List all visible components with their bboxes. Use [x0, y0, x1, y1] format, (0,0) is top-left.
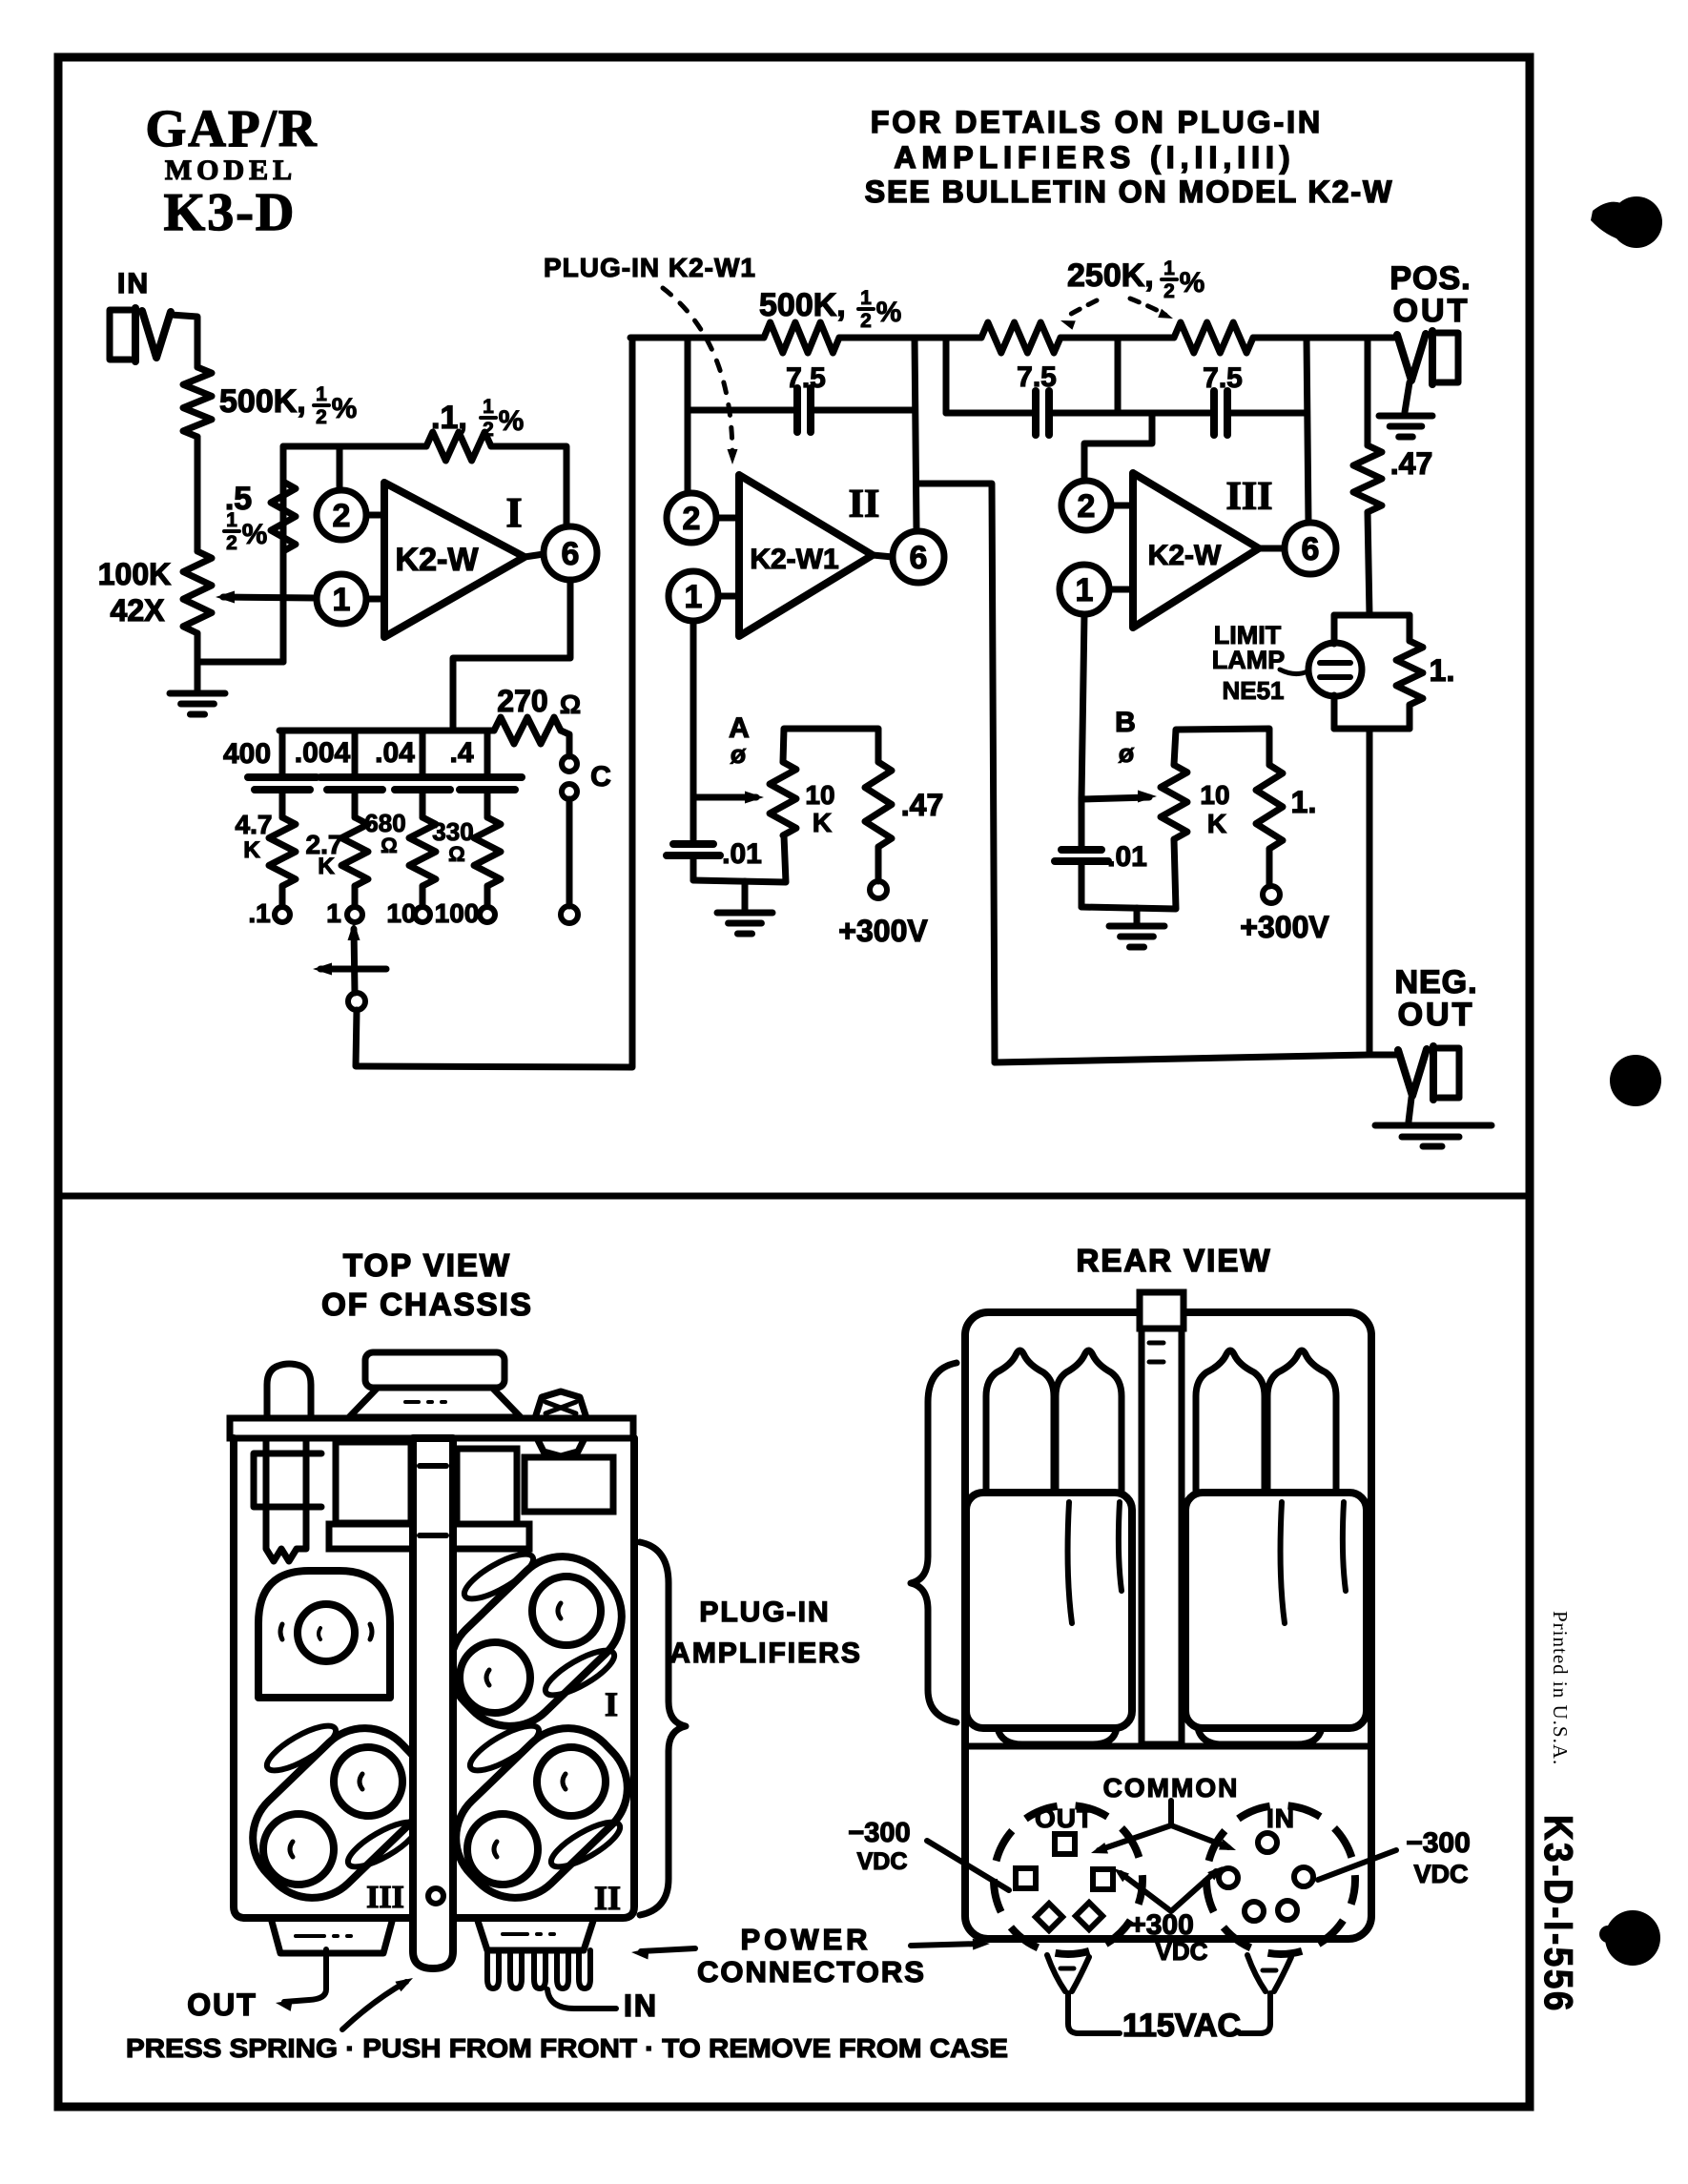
svg-text:MODEL: MODEL: [165, 155, 297, 186]
svg-text:VDC: VDC: [1156, 1937, 1208, 1966]
binder ink blob bottom: [1605, 1910, 1660, 1966]
svg-text:1.: 1.: [1291, 785, 1317, 819]
wire 270 to switch: [561, 731, 569, 756]
wire jack to ground pos: [1405, 382, 1410, 412]
wire pin2 to triangle: [366, 512, 384, 519]
svg-text:1: 1: [860, 287, 872, 309]
chassis pilot lamp: [267, 1364, 311, 1418]
wire apex to pin6 III: [1259, 546, 1285, 552]
resistor R10 500K feedback II: [764, 322, 839, 353]
svg-text:Printed in U.S.A.: Printed in U.S.A.: [1549, 1611, 1572, 1765]
svg-text:.1: .1: [248, 898, 270, 928]
svg-text:K3-D: K3-D: [164, 183, 297, 242]
pin round right: [1294, 1867, 1313, 1886]
svg-text:100K: 100K: [98, 557, 172, 591]
section divider line: [58, 1193, 1530, 1200]
svg-text:K2-W: K2-W: [396, 542, 480, 578]
wire R1 to pot: [195, 437, 201, 551]
terminal +300V B: [1263, 886, 1280, 903]
resistor R17 0.47 output: [1353, 445, 1382, 512]
svg-text:6: 6: [910, 540, 928, 576]
wire apex to pin 6: [525, 554, 544, 557]
switch S1 contact lower: [562, 784, 577, 799]
chassis connector block: [477, 1918, 594, 1950]
svg-text:K2-W: K2-W: [1148, 540, 1222, 571]
svg-text:AMPLIFIERS: AMPLIFIERS: [669, 1638, 862, 1669]
svg-text:500K,: 500K,: [759, 287, 846, 323]
resistor R5 270 ohm: [494, 717, 561, 744]
svg-text:TOP VIEW: TOP VIEW: [343, 1247, 511, 1283]
chassis screw hex: [535, 1391, 587, 1418]
wire C1 to R6: [279, 790, 286, 817]
socket cluster I: [429, 1535, 643, 1747]
svg-text:1: 1: [1076, 572, 1094, 608]
chassis knob: [365, 1352, 504, 1388]
svg-text:K: K: [1207, 809, 1226, 838]
svg-text:.01: .01: [1107, 841, 1147, 873]
resistor R13 250K first: [981, 322, 1060, 353]
resistor R7 2.7K: [341, 817, 368, 886]
svg-text:.4: .4: [449, 737, 473, 769]
wire amp II tee to neg bus: [918, 484, 995, 1062]
rear can left foot: [998, 1728, 1117, 1744]
wire pot bottom: [195, 633, 201, 662]
arrow power to rear connectors: [911, 1944, 980, 1946]
wire bottom junction: [197, 659, 283, 666]
binder ink blob top: [1611, 196, 1662, 248]
plus300 fork: [1121, 1871, 1216, 1911]
wire R17 to lamp box: [1368, 512, 1369, 615]
svg-text:PLUG-IN: PLUG-IN: [699, 1597, 830, 1628]
brace left of rear view: [911, 1363, 957, 1722]
svg-text:42X: 42X: [111, 593, 166, 628]
capacitor C6 7.5 parallel R13: [1032, 391, 1040, 435]
svg-text:1: 1: [483, 396, 494, 418]
switch S1 contact upper: [562, 756, 577, 772]
svg-text:K: K: [813, 808, 832, 837]
svg-text:Ω: Ω: [448, 842, 465, 866]
svg-text:ø: ø: [731, 740, 747, 769]
svg-text:2: 2: [683, 501, 701, 537]
svg-text:1: 1: [333, 582, 351, 618]
rear tubes: [986, 1350, 1054, 1495]
leader LAMP to lamp: [1280, 670, 1307, 674]
lamp box bottom: [1334, 726, 1410, 732]
wire junction drop 250K pair: [1115, 338, 1122, 413]
svg-text:2: 2: [226, 532, 237, 554]
wiper wire R2 to pin 1: [223, 597, 317, 598]
pin 1 of amp I: [317, 574, 366, 624]
selector wiper arrow up: [354, 929, 355, 993]
svg-text:K: K: [243, 837, 260, 863]
op-amp U3 K2-W: [1133, 473, 1259, 628]
svg-text:C: C: [590, 761, 611, 793]
wire pin2 to triangle III: [1111, 503, 1133, 509]
svg-text:.47: .47: [1390, 446, 1432, 481]
svg-text:6: 6: [562, 536, 580, 572]
wire J1 to R1: [171, 315, 197, 367]
svg-text:AMPLIFIERS (I,II,III): AMPLIFIERS (I,II,III): [894, 140, 1295, 175]
wire node to pin 2: [337, 446, 343, 490]
svg-text:POS.: POS.: [1390, 260, 1471, 297]
svg-text:.01: .01: [722, 838, 762, 870]
svg-text:OUT: OUT: [1398, 997, 1475, 1033]
svg-text:100: 100: [435, 898, 480, 928]
svg-text:6: 6: [1302, 531, 1320, 567]
resistor R16 1. B: [1256, 765, 1283, 849]
svg-text:1: 1: [685, 579, 703, 615]
svg-text:OUT: OUT: [1035, 1803, 1094, 1833]
bar pivot hole: [428, 1888, 443, 1904]
jack J3 NEG OUT: [1438, 1048, 1459, 1098]
wire summing rail amp I: [283, 443, 426, 450]
svg-text:NEG.: NEG.: [1394, 964, 1477, 1000]
chassis mech rect mid: [457, 1449, 517, 1524]
svg-text:OF CHASSIS: OF CHASSIS: [321, 1287, 533, 1322]
lamp box top: [1334, 612, 1410, 619]
wire cap C5 line right: [811, 407, 915, 414]
chassis body: [234, 1438, 634, 1918]
wire pot A top rail: [783, 729, 878, 762]
svg-text:Ω: Ω: [381, 834, 398, 857]
svg-text:.47: .47: [901, 788, 943, 822]
svg-text:.04: .04: [375, 737, 415, 769]
leader IN: [547, 1989, 616, 2009]
svg-text:10: 10: [805, 780, 834, 810]
connector IN dashed circle: [1206, 1805, 1355, 1954]
wire cap C7 line: [1118, 410, 1214, 417]
rear case: [965, 1312, 1371, 1939]
ground GND3: [1134, 908, 1141, 923]
svg-text:K2-W1: K2-W1: [750, 544, 838, 575]
capacitor C7 7.5 parallel R14: [1210, 391, 1218, 435]
wire C3 to R8: [420, 790, 426, 817]
wire pin1 III down: [1081, 614, 1084, 799]
svg-text:SEE BULLETIN ON MODEL K2-W: SEE BULLETIN ON MODEL K2-W: [865, 175, 1394, 209]
svg-text:10: 10: [386, 898, 416, 928]
chassis foot out: [271, 1918, 393, 1953]
svg-text:−300: −300: [1406, 1827, 1471, 1859]
chassis knob neck: [349, 1388, 521, 1417]
wire R4 to output node: [491, 446, 566, 525]
pin 2 of amp II: [667, 493, 716, 543]
svg-text:NE51: NE51: [1222, 676, 1284, 705]
chassis mech bar: [329, 1524, 529, 1549]
svg-text:270: 270: [497, 684, 547, 718]
wire pin1 to triangle: [366, 596, 384, 603]
svg-text:K: K: [318, 854, 335, 879]
rear can left: [966, 1493, 1132, 1728]
svg-text:7.5: 7.5: [1017, 361, 1057, 393]
wire C2 to R7: [352, 790, 359, 817]
chassis bracket: [254, 1453, 321, 1507]
svg-text:FOR DETAILS ON PLUG-IN: FOR DETAILS ON PLUG-IN: [871, 105, 1323, 139]
wire bank column 4 stem: [484, 731, 491, 777]
wire amp III output drop: [1307, 338, 1308, 523]
wire R3 bottom: [280, 551, 287, 662]
svg-text:IN: IN: [1266, 1803, 1295, 1833]
svg-text:IN: IN: [117, 268, 150, 299]
capacitor C9 .01 B: [1079, 799, 1085, 850]
svg-text:CONNECTORS: CONNECTORS: [697, 1955, 926, 1988]
contact C bottom: [561, 906, 578, 923]
leader dashed to R13: [1066, 300, 1097, 317]
wire pot B top rail: [1174, 729, 1269, 765]
contact 10: [415, 907, 430, 922]
wire lamp box to neg bus: [1367, 729, 1373, 1053]
socket cluster III: [232, 1707, 445, 1919]
svg-text:+300V: +300V: [1240, 910, 1329, 944]
wire bank column 2 stem: [352, 731, 359, 777]
wire amp III input jog: [1084, 413, 1152, 481]
svg-text:OUT: OUT: [1393, 293, 1471, 329]
resistor R3 0.5: [271, 482, 296, 551]
svg-text:%: %: [1180, 267, 1205, 299]
svg-text:250K,: 250K,: [1067, 258, 1154, 294]
wire bank top rail: [279, 728, 494, 734]
wire bank column 1 stem: [279, 731, 286, 777]
svg-text:VDC: VDC: [1413, 1860, 1468, 1888]
terminal +300V A: [870, 881, 887, 898]
115 bracket left: [1047, 1955, 1089, 1991]
pin 6 of amp III: [1285, 523, 1336, 574]
lamp box left upper: [1331, 615, 1338, 644]
capacitor C1 400: [248, 773, 317, 781]
wire R7 to contact: [352, 886, 359, 906]
capacitor C2 .004: [320, 773, 389, 781]
svg-text:REAR VIEW: REAR VIEW: [1076, 1243, 1271, 1278]
potentiometer R15 10K B: [1161, 765, 1187, 839]
wire selector to amp II input: [356, 338, 632, 1067]
wire pin1 to triangle III: [1109, 587, 1133, 593]
pin square top: [1055, 1834, 1075, 1854]
svg-text:PLUG-IN K2-W1: PLUG-IN K2-W1: [544, 253, 756, 282]
svg-text:%: %: [332, 393, 358, 424]
pin 2 of amp I: [317, 490, 366, 540]
svg-text:B: B: [1115, 707, 1136, 738]
wire cap C5 line left: [688, 407, 797, 414]
pin 6 of amp II: [893, 531, 944, 583]
wire R12 to supply: [875, 847, 882, 881]
wire cap C6 right: [1049, 410, 1118, 417]
chassis spring tube: [266, 1438, 306, 1561]
wire switch to contact row: [566, 799, 573, 906]
capacitor C8 .01 A: [690, 797, 697, 844]
contact 1: [347, 907, 362, 922]
wire C8 bottom to pot A: [693, 835, 786, 882]
wire rail between 250K: [1060, 335, 1174, 341]
selector hub contact: [348, 993, 365, 1010]
svg-text:115VAC: 115VAC: [1122, 2008, 1241, 2044]
ground GND5: [1375, 1123, 1492, 1129]
pin round left: [1219, 1868, 1238, 1887]
svg-text:4.7: 4.7: [236, 810, 273, 839]
svg-text:2: 2: [316, 406, 327, 428]
svg-text:2: 2: [1078, 488, 1096, 525]
wire jack to ground neg: [1409, 1098, 1411, 1122]
svg-text:OUT: OUT: [187, 1988, 257, 2022]
resistor R12 0.47: [865, 762, 892, 847]
wire amp II output drop: [915, 338, 916, 530]
contact 100: [480, 907, 495, 922]
svg-text:ø: ø: [1119, 739, 1135, 768]
chassis top plate: [230, 1418, 633, 1438]
svg-text:.1,: .1,: [431, 400, 467, 436]
svg-text:1: 1: [316, 383, 327, 405]
resistor R4 0.1 feedback: [426, 432, 491, 461]
lamp box left lower: [1331, 695, 1338, 729]
svg-text:I: I: [505, 489, 522, 536]
binder ink blob middle: [1610, 1055, 1661, 1106]
svg-text:%: %: [499, 405, 525, 437]
svg-text:2: 2: [860, 310, 872, 332]
pin 1 of amp II: [669, 571, 718, 621]
svg-text:I: I: [605, 1685, 618, 1723]
ground GND2: [742, 881, 749, 910]
arrow power to chassis pins: [641, 1948, 695, 1951]
pin 2 of amp III: [1061, 481, 1111, 530]
brace right of top view: [640, 1542, 686, 1915]
socket D left: [258, 1571, 390, 1698]
capacitor C4 .4: [453, 773, 522, 781]
wire amp I output down: [453, 580, 570, 728]
wire pin1 II down: [690, 621, 697, 797]
resistor R9 330&#937;: [474, 817, 501, 886]
chassis center bar: [413, 1438, 453, 1968]
svg-text:GAP/R: GAP/R: [145, 99, 318, 157]
svg-text:500K,: 500K,: [219, 383, 306, 420]
wire C9 bottom to pot B: [1081, 839, 1176, 909]
svg-text:PRESS SPRING · PUSH FROM FRONT: PRESS SPRING · PUSH FROM FRONT · TO REMO…: [126, 2033, 1008, 2063]
svg-text:POWER: POWER: [740, 1923, 871, 1956]
svg-text:2: 2: [333, 498, 351, 534]
svg-text:III: III: [1225, 475, 1272, 519]
rear can right foot: [1198, 1728, 1322, 1744]
rear center bar: [1140, 1292, 1184, 1329]
leader dashed to R14: [1130, 299, 1165, 315]
svg-text:2: 2: [1163, 280, 1175, 302]
wire C4 to R9: [484, 790, 491, 817]
svg-text:−300: −300: [848, 1818, 910, 1848]
svg-text:%: %: [242, 519, 268, 550]
svg-text:VDC: VDC: [857, 1848, 908, 1875]
wire rail to POS OUT: [1253, 335, 1398, 341]
svg-text:+300V: +300V: [838, 914, 928, 948]
svg-text:400: 400: [223, 738, 271, 770]
wiper wire pot B: [1081, 797, 1149, 799]
capacitor C5 7.5 amp II: [793, 388, 801, 432]
svg-text:2: 2: [483, 419, 494, 441]
pin round bottom right: [1278, 1901, 1297, 1920]
resistor R18 1. lamp parallel: [1396, 641, 1423, 705]
wire R9 to contact: [484, 886, 491, 906]
wire pin1 to triangle II: [718, 593, 739, 600]
pin 1 of amp III: [1060, 565, 1109, 614]
limit lamp DS1 NE51: [1308, 643, 1362, 696]
leader OUT: [284, 1949, 326, 2002]
pin round top: [1258, 1833, 1277, 1852]
jack J1 IN: [110, 310, 131, 360]
pin square left: [1016, 1868, 1036, 1888]
svg-text:1: 1: [326, 898, 341, 928]
contact .1: [275, 907, 290, 922]
svg-text:1: 1: [1163, 258, 1175, 279]
lamp box right upper: [1407, 615, 1413, 641]
svg-text:LAMP: LAMP: [1212, 646, 1286, 674]
leader -300 left: [927, 1841, 1009, 1890]
svg-text:1: 1: [226, 509, 237, 531]
svg-text:7.5: 7.5: [1203, 362, 1243, 394]
wiper wire pot A: [693, 794, 756, 801]
ground GND4: [1379, 413, 1432, 420]
chassis mech rect left: [336, 1442, 411, 1523]
115 bracket right: [1247, 1955, 1291, 1991]
svg-text:IN: IN: [624, 1988, 658, 2023]
pin diamond right: [1076, 1903, 1102, 1929]
lamp box right lower: [1407, 705, 1413, 729]
capacitor C3 .04: [388, 773, 457, 781]
pin square right: [1093, 1869, 1113, 1889]
svg-text:%: %: [876, 297, 902, 328]
wire cap C6 drop: [943, 338, 950, 413]
svg-text:1.: 1.: [1430, 653, 1455, 688]
socket cluster II: [435, 1707, 648, 1919]
svg-text:Ω: Ω: [560, 690, 581, 719]
resistor R1 500K input: [183, 367, 212, 437]
common fork: [1168, 1801, 1174, 1825]
wire R6 to contact: [279, 886, 286, 906]
connector pins: [487, 1950, 499, 1988]
rear can right: [1185, 1493, 1367, 1728]
wire R17 drop from rail: [1365, 338, 1371, 445]
wire R3 top to summing node: [280, 446, 287, 551]
op-amp U1 K2-W: [384, 483, 525, 637]
wire pin2 to triangle II: [716, 515, 739, 522]
ground GND1: [195, 662, 201, 691]
wire apex to pin 6 amp II: [873, 555, 893, 557]
op-amp U2 K2-W1: [739, 475, 873, 636]
wire cap C7 right: [1227, 410, 1306, 417]
wire rail R10 to junction: [839, 335, 981, 341]
wire pin2 drop amp II: [685, 338, 691, 490]
svg-text:.004: .004: [295, 737, 351, 769]
resistor R14 250K second: [1174, 322, 1253, 353]
wire cap C6 line: [946, 410, 1036, 417]
selector wiper arrow left: [320, 966, 386, 973]
resistor R6 4.7K: [269, 817, 296, 886]
wire R16 to supply: [1266, 849, 1273, 886]
svg-text:II: II: [594, 1879, 621, 1917]
potentiometer R2 100K 42X: [183, 551, 212, 633]
connector OUT dashed circle: [994, 1805, 1142, 1954]
pin 6 of amp I: [544, 526, 597, 580]
potentiometer R11 10K A: [770, 762, 796, 835]
svg-text:II: II: [849, 483, 880, 526]
svg-text:10: 10: [1200, 780, 1229, 810]
svg-text:K3-D-I-556: K3-D-I-556: [1536, 1815, 1581, 2013]
press spring arrow: [342, 1982, 406, 2029]
wire R8 to contact: [420, 886, 426, 906]
leader dashed to amp II: [663, 288, 732, 456]
wire amp II summing rail: [630, 335, 764, 341]
wire negative output bus: [995, 1055, 1399, 1062]
wire bank column 3 stem: [420, 731, 426, 777]
pin diamond left: [1036, 1904, 1062, 1930]
jack J2 POS OUT: [1437, 333, 1458, 382]
svg-text:7.5: 7.5: [786, 362, 826, 394]
svg-text:III: III: [366, 1880, 404, 1915]
pin round bottom left: [1245, 1902, 1264, 1921]
